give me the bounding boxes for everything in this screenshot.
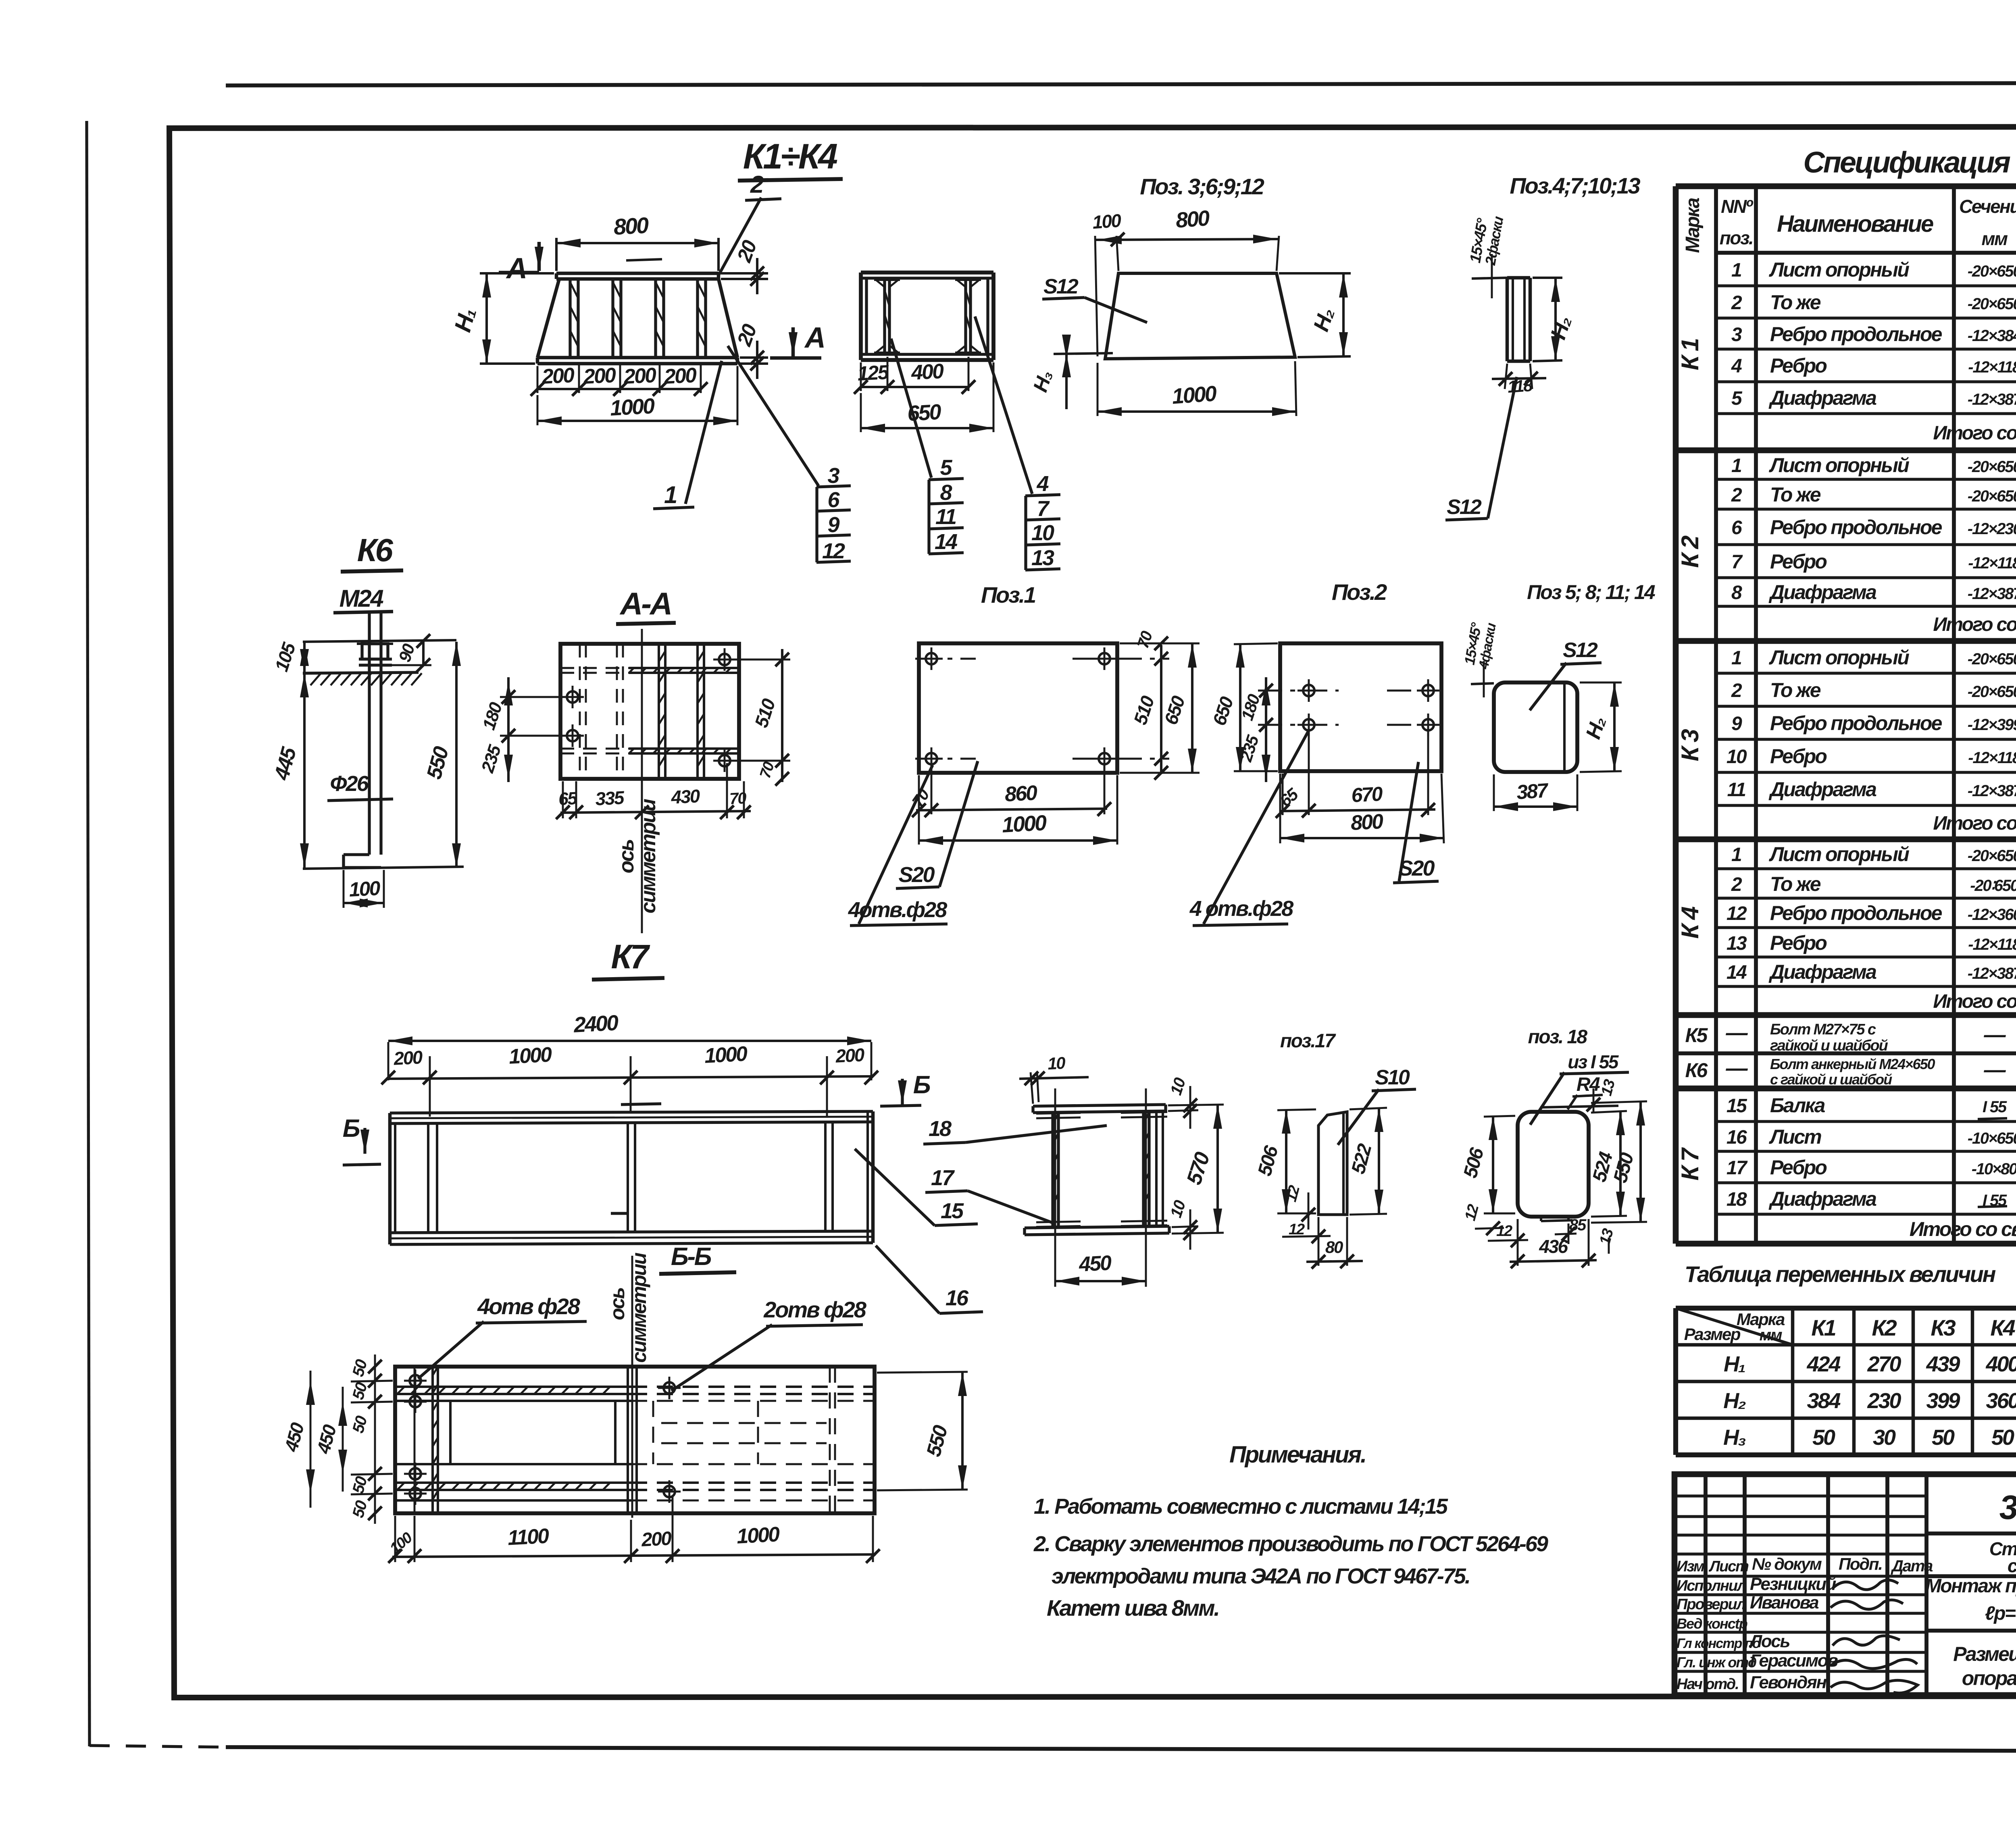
svg-text:То же: То же <box>1770 291 1821 314</box>
svg-text:Монтаж пролетных строений: Монтаж пролетных строений <box>1925 1575 2016 1597</box>
svg-text:Ф26: Ф26 <box>330 772 369 796</box>
svg-text:70: 70 <box>729 789 747 808</box>
svg-text:строения пролетами 40,60: строения пролетами 40,60 и 80м <box>2008 1555 2016 1576</box>
svg-text:К 1: К 1 <box>1677 339 1704 370</box>
svg-text:М24: М24 <box>339 585 384 612</box>
leader to positions 3-6-9-12 <box>728 346 818 486</box>
svg-text:105: 105 <box>271 639 300 674</box>
svg-text:50: 50 <box>349 1414 371 1435</box>
svg-text:235: 235 <box>477 743 505 776</box>
poz2 hole centerlines <box>1258 690 1339 692</box>
svg-text:Герасимов: Герасимов <box>1750 1651 1838 1671</box>
leader to positions 5-8-11-14 <box>891 339 931 478</box>
svg-text:-12×118: -12×118 <box>1968 554 2016 572</box>
K7 beam right end <box>866 1111 869 1243</box>
dim 70 510 right of poz1 <box>1160 645 1162 774</box>
svg-text:Диафрагма: Диафрагма <box>1768 778 1876 801</box>
dim H2 right of poz3 <box>1279 272 1351 275</box>
svg-text:из I 55: из I 55 <box>1568 1051 1619 1072</box>
dim 387 bottom of poz5 <box>1493 774 1495 811</box>
dim 570 right of B-B <box>1168 1105 1224 1105</box>
dim 100 bottom of K6 <box>343 870 345 908</box>
svg-text:Лист опорный: Лист опорный <box>1769 258 1909 281</box>
title block outline <box>1674 1474 2016 1695</box>
svg-text:2: 2 <box>750 171 764 198</box>
svg-text:К 7: К 7 <box>1677 1147 1704 1181</box>
svg-text:К2: К2 <box>1872 1315 1897 1340</box>
K6 top dim line <box>303 640 456 642</box>
title block signatures <box>1833 1580 1898 1590</box>
svg-text:Лист опорный: Лист опорный <box>1769 646 1909 669</box>
dim 1000 bottom of poz3 <box>1097 363 1099 416</box>
svg-text:30: 30 <box>1873 1425 1896 1450</box>
section box internal I-ribs <box>883 278 886 354</box>
svg-text:Сечение: Сечение <box>1959 196 2016 217</box>
svg-text:Н₂: Н₂ <box>1546 313 1576 342</box>
svg-text:200: 200 <box>641 1528 673 1551</box>
svg-text:Н₂: Н₂ <box>1723 1389 1746 1413</box>
svg-text:6: 6 <box>827 488 840 512</box>
dim H1 left <box>480 272 554 275</box>
svg-text:1000: 1000 <box>1001 811 1047 837</box>
dim H2 right of poz5 <box>1580 682 1622 684</box>
svg-text:522: 522 <box>1347 1141 1376 1176</box>
svg-text:То же: То же <box>1770 873 1821 895</box>
view B-B section top plate <box>1033 1105 1166 1106</box>
svg-text:К 2: К 2 <box>1677 536 1704 568</box>
svg-text:Н₁: Н₁ <box>450 306 481 335</box>
svg-text:Поз.2: Поз.2 <box>1332 579 1387 605</box>
svg-text:-10×650: -10×650 <box>1968 1130 2016 1147</box>
dim 20 bottom right <box>740 356 768 359</box>
poz1 hole centerlines <box>915 658 976 660</box>
svg-text:А-А: А-А <box>619 586 671 621</box>
svg-text:-12×387: -12×387 <box>1968 965 2016 982</box>
dim 506 left of poz18 <box>1484 1116 1515 1117</box>
svg-text:То же: То же <box>1770 483 1821 506</box>
view K7 beam elevation bottom flange <box>390 1231 873 1233</box>
svg-text:125: 125 <box>857 361 890 385</box>
svg-text:550: 550 <box>922 1423 952 1459</box>
dim 1000 bottom of poz1 <box>919 839 1117 842</box>
view K7 beam elevation top flange <box>390 1111 873 1113</box>
poz1 bolt holes <box>926 653 937 664</box>
svg-text:Лист опорный: Лист опорный <box>1769 843 1909 866</box>
dim 800 bottom of poz2 <box>1279 774 1281 843</box>
svg-text:10: 10 <box>1047 1053 1066 1073</box>
dim 1000 bottom <box>537 395 539 425</box>
spec table K2 block rows <box>1716 478 2016 481</box>
svg-text:-12×387: -12×387 <box>1968 391 2016 408</box>
svg-text:Изм: Изм <box>1677 1558 1705 1575</box>
svg-text:Примечания.: Примечания. <box>1229 1442 1366 1468</box>
svg-text:8: 8 <box>1731 582 1742 603</box>
view K1-K4 elevation right slant rib edge <box>719 279 737 358</box>
view poz3 trapezoid rib <box>1105 273 1295 359</box>
dims 12 436 85 bottom of poz18 <box>1517 1219 1519 1266</box>
svg-text:5: 5 <box>1731 388 1743 409</box>
svg-text:200: 200 <box>835 1044 865 1067</box>
svg-text:Вед консtр: Вед консtр <box>1677 1615 1747 1632</box>
svg-text:445: 445 <box>270 745 301 783</box>
svg-text:506: 506 <box>1460 1145 1488 1180</box>
svg-text:387: 387 <box>1516 779 1549 803</box>
svg-text:2. Сварку элементов производ: 2. Сварку элементов производить по ГОСТ … <box>1033 1532 1548 1556</box>
dim 550 right of poz18 <box>1591 1101 1647 1103</box>
leader 2 to top plate <box>719 198 761 275</box>
svg-text:439: 439 <box>1926 1352 1960 1376</box>
dims 510 70 right of A-A <box>732 659 790 661</box>
svg-text:Марка: Марка <box>1682 198 1704 253</box>
dim 118 bottom of poz4 <box>1505 364 1507 389</box>
K7 beam left end <box>388 1113 392 1244</box>
svg-text:Итого со сварными швами:: Итого со сварными швами: <box>1933 813 2016 834</box>
svg-text:12: 12 <box>822 539 845 563</box>
svg-text:Ребро продольное: Ребро продольное <box>1770 323 1942 345</box>
A-A solid ribs right with hatch <box>658 644 660 779</box>
svg-text:NNº: NNº <box>1721 196 1753 217</box>
svg-text:800: 800 <box>1350 810 1384 835</box>
dim 10 top left of B-B <box>1031 1072 1033 1104</box>
svg-text:Ребро продольное: Ребро продольное <box>1770 516 1942 539</box>
svg-text:-12×387: -12×387 <box>1968 782 2016 800</box>
svg-text:поз.: поз. <box>1720 227 1753 248</box>
svg-text:1: 1 <box>664 481 677 508</box>
spec table outer and column lines <box>1676 183 2016 189</box>
svg-text:S10: S10 <box>1375 1066 1410 1089</box>
svg-text:200: 200 <box>583 364 617 389</box>
svg-text:с гайкой и шайбой: с гайкой и шайбой <box>1770 1071 1892 1088</box>
K6 bolt foot <box>344 853 369 856</box>
svg-text:-12×387: -12×387 <box>1968 585 2016 603</box>
svg-text:200: 200 <box>623 364 657 389</box>
K7 plan interior lines <box>414 1367 416 1513</box>
svg-text:70: 70 <box>757 760 778 780</box>
svg-text:-12×118: -12×118 <box>1968 749 2016 767</box>
dim 800 top <box>555 238 558 271</box>
svg-text:450: 450 <box>280 1420 308 1454</box>
svg-text:Б-Б: Б-Б <box>671 1243 711 1271</box>
spec table K7 block rows <box>1716 1120 2016 1123</box>
svg-text:424: 424 <box>1806 1352 1841 1376</box>
svg-text:Ребро: Ребро <box>1770 932 1826 954</box>
dim 650 right of poz1 <box>1120 643 1200 645</box>
svg-text:5: 5 <box>940 456 952 480</box>
svg-text:15: 15 <box>941 1199 964 1223</box>
svg-text:—: — <box>1984 1058 2006 1082</box>
svg-text:электродами типа Э42А по Г: электродами типа Э42А по ГОСТ 9467-75. <box>1052 1564 1470 1588</box>
variables table header diagonal <box>1676 1308 1793 1345</box>
svg-text:4: 4 <box>1731 356 1742 377</box>
svg-text:-20×650: -20×650 <box>1968 458 2016 476</box>
svg-text:К3: К3 <box>1931 1315 1956 1340</box>
svg-text:50: 50 <box>349 1475 371 1496</box>
dim 650 left of poz2 <box>1234 643 1278 644</box>
inner border frame <box>169 127 2016 1698</box>
sheet outer edge bottom <box>90 1746 226 1747</box>
svg-text:Поз.1: Поз.1 <box>981 582 1035 608</box>
svg-text:—: — <box>1726 1021 1748 1045</box>
A-A hidden rib lines dashed left <box>579 644 581 779</box>
svg-text:мм: мм <box>1760 1326 1782 1344</box>
svg-text:360: 360 <box>1986 1389 2016 1413</box>
K7 plan centre ribs <box>627 1367 629 1513</box>
svg-text:Лист опорный: Лист опорный <box>1769 454 1909 476</box>
A-A bolt holes <box>567 691 578 703</box>
view K6 bolt shaft <box>368 613 371 855</box>
svg-text:Поз.4;7;10;13: Поз.4;7;10;13 <box>1510 173 1640 198</box>
svg-text:12: 12 <box>1496 1223 1512 1240</box>
K7 plan holes left <box>410 1375 421 1386</box>
svg-text:ось: ось <box>615 840 638 874</box>
svg-text:85: 85 <box>1569 1216 1587 1234</box>
dims 200 1000 1000 200 of K7 <box>429 1056 431 1117</box>
svg-text:1. Работать совместно с лист: 1. Работать совместно с листами 14;15 <box>1034 1494 1448 1519</box>
svg-text:4отв ф28: 4отв ф28 <box>477 1294 581 1319</box>
svg-text:Н₂: Н₂ <box>1309 305 1339 334</box>
svg-text:17: 17 <box>931 1166 955 1190</box>
dim 10 top right of B-B <box>1168 1110 1198 1111</box>
svg-text:399: 399 <box>1926 1389 1960 1413</box>
svg-text:Размещение кареток на: Размещение кареток на <box>1953 1643 2016 1665</box>
svg-text:А: А <box>506 252 526 285</box>
dim 13 top right of poz18 <box>1593 1088 1595 1113</box>
svg-text:10: 10 <box>1727 746 1747 768</box>
dims 200x4 bottom <box>578 365 580 393</box>
svg-text:мм: мм <box>1981 228 2008 249</box>
dims 65 670 bottom of poz2 <box>1308 730 1310 815</box>
view K1-K4 elevation top plate poz.2 <box>556 272 719 275</box>
svg-text:Балка: Балка <box>1770 1094 1825 1117</box>
dim 550 <box>455 642 458 868</box>
svg-text:То же: То же <box>1770 679 1821 701</box>
svg-text:650: 650 <box>1160 693 1189 727</box>
svg-text:2отв ф28: 2отв ф28 <box>763 1297 867 1322</box>
K7 plan holes right <box>664 1382 675 1394</box>
svg-text:Спецификация металла: Спецификация металла <box>1803 146 2016 179</box>
svg-text:230: 230 <box>1867 1389 1901 1413</box>
svg-text:1000: 1000 <box>1171 381 1218 409</box>
svg-text:2: 2 <box>1731 292 1742 314</box>
svg-text:Поз 5; 8; 11; 14: Поз 5; 8; 11; 14 <box>1527 581 1655 603</box>
view K7 plan outline <box>395 1367 875 1513</box>
dim 105 <box>303 642 306 673</box>
view poz4 plate strip <box>1507 276 1530 280</box>
dim 20 top right <box>721 272 768 275</box>
svg-text:510: 510 <box>1129 693 1158 727</box>
view poz2 plate 800x650 <box>1280 643 1441 771</box>
svg-text:-10×80: -10×80 <box>1972 1160 2016 1178</box>
svg-text:335: 335 <box>595 787 625 809</box>
svg-text:К 3: К 3 <box>1677 729 1704 761</box>
dims 50 left of K7 plan <box>351 1381 393 1382</box>
dims 65 335 430 70 bottom of A-A <box>562 781 564 818</box>
svg-text:Резницкий: Резницкий <box>1750 1574 1837 1594</box>
svg-text:50: 50 <box>349 1381 371 1402</box>
view K1-K4 elevation vertical ribs <box>569 279 571 358</box>
svg-text:65: 65 <box>558 789 578 809</box>
A-A horizontal plate strips <box>560 667 657 669</box>
svg-text:S12: S12 <box>1563 639 1598 662</box>
svg-text:Итого со сварными швами:: Итого со сварными швами: <box>1933 614 2016 635</box>
spec table K4 block rows <box>1716 867 2016 870</box>
svg-text:К7: К7 <box>611 938 650 976</box>
K6 ground line with hatching <box>303 672 419 673</box>
svg-text:860: 860 <box>1004 781 1038 806</box>
svg-text:70: 70 <box>1134 629 1156 651</box>
svg-text:1100: 1100 <box>507 1524 550 1550</box>
svg-text:К1: К1 <box>1811 1315 1835 1340</box>
svg-text:13: 13 <box>1727 933 1747 954</box>
svg-text:100: 100 <box>387 1529 416 1557</box>
svg-text:Проверил: Проверил <box>1677 1596 1746 1613</box>
dim 445 <box>303 673 306 868</box>
K7 beam internal ribs <box>427 1124 429 1233</box>
svg-text:Размер: Размер <box>1684 1325 1741 1344</box>
svg-text:400: 400 <box>910 360 945 385</box>
svg-text:Н₁: Н₁ <box>1724 1352 1745 1376</box>
svg-text:S12: S12 <box>1447 495 1482 519</box>
svg-text:-12×118: -12×118 <box>1968 936 2016 953</box>
svg-text:16: 16 <box>1727 1127 1747 1148</box>
svg-text:11: 11 <box>1727 779 1746 801</box>
dim 90 <box>391 664 431 666</box>
dim 506 left of poz17 <box>1277 1109 1316 1110</box>
svg-text:Поз. 3;6;9;12: Поз. 3;6;9;12 <box>1140 174 1264 199</box>
svg-text:50: 50 <box>1932 1425 1955 1450</box>
svg-text:—: — <box>1984 1023 2006 1047</box>
svg-text:-20×650: -20×650 <box>1968 683 2016 701</box>
svg-text:-12×118: -12×118 <box>1968 358 2016 376</box>
svg-text:Ребро продольное: Ребро продольное <box>1770 712 1942 734</box>
spec table K3 block rows <box>1716 672 2016 674</box>
svg-text:Ребро продольное: Ребро продольное <box>1770 902 1942 924</box>
svg-text:10: 10 <box>1167 1076 1189 1097</box>
B-B right I-beam <box>1142 1112 1145 1227</box>
svg-text:ℓр= 63+84 +63м: ℓр= 63+84 +63м <box>1985 1603 2016 1624</box>
svg-text:1: 1 <box>1731 647 1741 669</box>
svg-text:17: 17 <box>1727 1157 1748 1179</box>
dims 12 80 bottom of poz17 <box>1318 1217 1320 1266</box>
title block vertical lines left part <box>1704 1474 1708 1695</box>
svg-text:1000: 1000 <box>704 1042 748 1068</box>
svg-text:-20×650: -20×650 <box>1968 262 2016 280</box>
A-A centerline <box>641 629 643 933</box>
svg-text:Болт анкерный М24×650: Болт анкерный М24×650 <box>1770 1056 1935 1072</box>
svg-text:поз.17: поз.17 <box>1280 1030 1336 1052</box>
svg-text:18: 18 <box>1727 1189 1747 1210</box>
svg-text:-20×650: -20×650 <box>1968 487 2016 505</box>
svg-text:Б: Б <box>913 1071 930 1099</box>
svg-text:-12×384: -12×384 <box>1968 327 2016 345</box>
svg-text:Диафрагма: Диафрагма <box>1768 581 1876 603</box>
svg-text:13: 13 <box>1596 1227 1617 1247</box>
svg-text:Катет шва 8мм.: Катет шва 8мм. <box>1047 1595 1219 1621</box>
svg-text:поз. 18: поз. 18 <box>1528 1026 1588 1048</box>
svg-text:Ребро: Ребро <box>1770 745 1826 768</box>
sheet outer edge top <box>226 83 2016 85</box>
svg-text:А: А <box>804 322 824 354</box>
svg-text:1000: 1000 <box>508 1043 553 1069</box>
dim 450 bottom of B-B <box>1054 1088 1056 1287</box>
svg-text:Дата: Дата <box>1891 1557 1933 1575</box>
svg-text:I 55: I 55 <box>1983 1098 2007 1116</box>
svg-text:Наименование: Наименование <box>1777 211 1933 237</box>
svg-text:650: 650 <box>1208 694 1237 728</box>
svg-text:450: 450 <box>1078 1251 1112 1276</box>
view K1-K4 elevation left slant rib edge <box>537 279 559 358</box>
dim 650 below section <box>860 393 862 432</box>
svg-text:450: 450 <box>312 1422 340 1456</box>
svg-text:12: 12 <box>1289 1221 1305 1238</box>
svg-text:180: 180 <box>479 700 506 732</box>
dim 10 bottom right of B-B <box>1172 1226 1198 1227</box>
svg-text:К5: К5 <box>1685 1024 1708 1047</box>
svg-text:10: 10 <box>1031 521 1054 545</box>
svg-text:Нач отд.: Нач отд. <box>1677 1676 1739 1693</box>
svg-text:Исполнил: Исполнил <box>1677 1577 1746 1594</box>
svg-text:7: 7 <box>1731 551 1743 573</box>
view K1-K4 section box 650 <box>861 270 993 275</box>
K6 nut and washer <box>362 644 388 659</box>
svg-text:400: 400 <box>1985 1352 2016 1376</box>
svg-text:К6: К6 <box>357 532 394 568</box>
svg-text:—: — <box>1726 1056 1748 1080</box>
svg-text:430: 430 <box>670 785 701 808</box>
svg-text:1000: 1000 <box>736 1523 781 1548</box>
dims 450 450 left of K7 plan <box>310 1371 312 1508</box>
svg-text:3: 3 <box>827 464 839 488</box>
svg-text:ось: ось <box>606 1288 629 1320</box>
poz2 bolt holes <box>1303 685 1314 696</box>
svg-text:510: 510 <box>750 696 779 730</box>
svg-text:Ребро: Ребро <box>1770 550 1826 573</box>
svg-text:№ докум: № докум <box>1752 1554 1822 1573</box>
svg-text:118: 118 <box>1507 376 1533 396</box>
center mark above elevation top plate <box>626 259 662 260</box>
svg-text:9: 9 <box>1731 713 1742 734</box>
svg-text:-12×360: -12×360 <box>1968 906 2016 924</box>
svg-text:4 отв.ф28: 4 отв.ф28 <box>1189 897 1293 921</box>
svg-text:Лось: Лось <box>1749 1631 1789 1651</box>
dim H3 left of poz3 <box>1054 353 1113 354</box>
dim 522 right of poz17 <box>1350 1108 1387 1109</box>
dim H2 right of poz4 <box>1533 277 1562 279</box>
svg-text:384: 384 <box>1807 1389 1841 1413</box>
svg-text:К6: К6 <box>1685 1059 1708 1082</box>
svg-text:S20: S20 <box>898 863 935 887</box>
svg-text:симметрии: симметрии <box>637 799 660 913</box>
svg-text:2: 2 <box>1731 485 1742 506</box>
dims 100 1100 200 1000 bottom of K7 plan <box>394 1516 396 1562</box>
dim 2400 top of K7 <box>387 1042 389 1080</box>
svg-text:Подп.: Подп. <box>1839 1554 1882 1573</box>
svg-text:7: 7 <box>1037 497 1050 521</box>
svg-text:8: 8 <box>940 481 952 505</box>
svg-text:Итого со сварными швами:: Итого со сварными швами: <box>1910 1218 2016 1240</box>
svg-text:11: 11 <box>935 505 956 529</box>
svg-text:Диафрагма: Диафрагма <box>1768 387 1876 409</box>
svg-text:Н₃: Н₃ <box>1723 1425 1746 1450</box>
svg-text:R4: R4 <box>1577 1074 1600 1095</box>
svg-text:S12: S12 <box>1043 275 1079 298</box>
svg-text:Диафрагма: Диафрагма <box>1768 1188 1876 1210</box>
svg-text:50: 50 <box>1812 1425 1835 1450</box>
svg-text:Н₃: Н₃ <box>1029 368 1056 395</box>
svg-text:15: 15 <box>1727 1095 1747 1117</box>
svg-text:Итого со сварными швами:: Итого со сварными швами: <box>1933 422 2016 444</box>
svg-text:270: 270 <box>1867 1352 1901 1376</box>
